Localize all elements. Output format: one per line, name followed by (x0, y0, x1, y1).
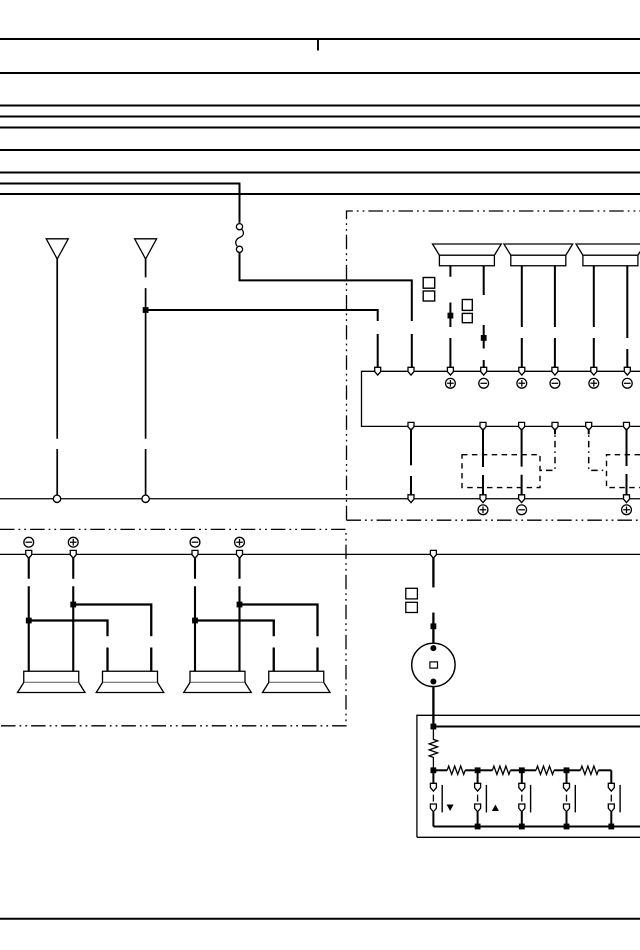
wire mid rail seg1 (433, 769, 447, 771)
motor center mark (430, 662, 438, 668)
junction mid rail s3 (519, 767, 525, 773)
wire bus line 4 (0, 116, 640, 118)
wire bus line 9 (0, 193, 640, 195)
switch SW3 (519, 770, 531, 826)
speaker SPK-DR1 (184, 671, 252, 692)
wire bus line 1 (0, 38, 640, 40)
switch SW5 (608, 770, 620, 826)
connector label box pair A (423, 278, 435, 289)
junction bottom rail b2 (519, 824, 525, 830)
speaker SPK-DR2 (263, 671, 331, 692)
motor terminal top (430, 645, 436, 651)
junction door-right negative (192, 618, 198, 624)
wire T2 left lead (521, 266, 523, 368)
amp bottom terminals (408, 422, 414, 430)
junction bottom rail b1 (475, 824, 481, 830)
wire mid rail seg6 (554, 769, 567, 771)
switch SW1 (430, 770, 442, 826)
wire door-left positive (72, 557, 74, 671)
flexible lead squiggle (236, 229, 244, 246)
motor terminal bottom (430, 679, 436, 685)
junction bottom rail b4 (608, 824, 614, 830)
junction door-left negative (26, 618, 32, 624)
junction mid rail s2 (475, 767, 481, 773)
junction door-right positive (237, 602, 243, 608)
speaker SPK-T2 (504, 244, 573, 266)
junction splice on T1 left lead (448, 313, 454, 319)
antenna ANT1 (46, 239, 68, 259)
wire motor to control box (432, 686, 434, 727)
polarity marks on amp inputs (446, 378, 456, 388)
resistor R3 (536, 766, 554, 774)
wire link to tweeter left (194, 621, 274, 672)
junction on motor feed (431, 623, 437, 629)
terminal ANT1 ring (53, 495, 60, 502)
junction top rail (431, 724, 437, 730)
wire amp output 2 (482, 429, 484, 496)
wire W2 antenna sub-feeder (146, 310, 378, 368)
wire amp output 1 (410, 429, 412, 496)
polarity marks above H2 (24, 537, 34, 547)
wire mid rail seg8 (598, 769, 611, 771)
wire top rail (433, 725, 640, 727)
switch SW2 (475, 770, 487, 826)
wire amp output 4 optional dashed (554, 429, 556, 435)
speaker SPK-T1 (433, 244, 502, 266)
dashed option box 1 (462, 455, 540, 488)
junction on ANT2 lead (143, 307, 149, 313)
speaker SPK-DL1 (18, 671, 86, 692)
wire bus line 7 (0, 172, 640, 174)
wire page bottom rule (0, 918, 640, 920)
wire bus line 3 (0, 105, 640, 107)
control unit box (417, 715, 640, 837)
junction splice on T1 right lead (481, 335, 487, 341)
switch SW4 (564, 770, 576, 826)
amp top terminals (375, 367, 381, 375)
wire link to tweeter left (28, 621, 108, 672)
resistor R2 (492, 766, 510, 774)
terminals on H2 (26, 550, 32, 558)
resistor R4 (580, 766, 598, 774)
wire bus line 8 partial (0, 183, 240, 185)
wire T1 right lead (483, 266, 485, 368)
speaker SPK-T3 (576, 244, 640, 266)
wire motor feed lower (432, 613, 434, 644)
connector squiggle lower ring (236, 246, 242, 252)
wire amp output 5 optional dashed (588, 429, 590, 435)
resistor R1 (447, 766, 465, 774)
wire bus line 6 (0, 149, 640, 151)
junction mid rail s4 (564, 767, 570, 773)
wire link to tweeter right (72, 605, 151, 672)
switch SW1 down label (447, 805, 454, 812)
switch SW2 up label (492, 805, 499, 812)
dashed option box 2 (607, 455, 640, 488)
terminal ANT2 ring (142, 495, 149, 502)
wire amp output 3 (521, 429, 523, 496)
node tick on bus line 1 (317, 39, 319, 51)
dashed enclosure bottom-left doors (0, 529, 346, 725)
wire T3 left lead (593, 266, 595, 368)
wire bus line 5 (0, 127, 640, 129)
antenna ANT2 (135, 239, 157, 259)
speaker SPK-DL2 (96, 671, 164, 692)
wire mid rail seg2 (465, 769, 477, 771)
wire motor feed (432, 557, 434, 587)
wire bottom rail (433, 825, 640, 827)
amplifier unit U1 box (362, 371, 640, 426)
wire door-right positive (238, 557, 240, 671)
wire harness line H1 (0, 498, 640, 500)
wire T2 right lead (554, 266, 556, 368)
wire door-right negative (194, 557, 196, 671)
wire amp output 6 (626, 429, 628, 496)
motor M1 body (412, 643, 455, 686)
wire harness line H2 (0, 553, 640, 555)
dashed enclosure top-right unit (347, 211, 640, 520)
junction mid rail (431, 767, 437, 773)
junction door-left positive (70, 602, 76, 608)
wire antenna ANT2 lead (145, 258, 147, 495)
connector squiggle upper ring (236, 224, 242, 230)
terminals on H1 (408, 495, 414, 503)
connector label box pair B (462, 300, 472, 311)
junction bottom rail b3 (564, 824, 570, 830)
wire T1 left lead (449, 266, 451, 368)
wire W1 continues to radio unit (239, 253, 413, 368)
wire antenna ANT1 lead (56, 258, 58, 495)
wire W1 antenna main feeder drop (239, 184, 241, 223)
wire mid rail seg7 (567, 769, 581, 771)
wire bus line 2 (0, 72, 640, 74)
wire T3 right lead (626, 266, 628, 368)
connector label box pair C (406, 588, 418, 599)
wire mid rail seg4 (510, 769, 521, 771)
resistor R0 vertical (429, 727, 437, 771)
wire door-left negative (28, 557, 30, 671)
wire mid rail seg3 (478, 769, 493, 771)
polarity marks under H1 (478, 505, 488, 515)
wire mid rail seg5 (522, 769, 536, 771)
wire link to tweeter right (238, 605, 317, 672)
